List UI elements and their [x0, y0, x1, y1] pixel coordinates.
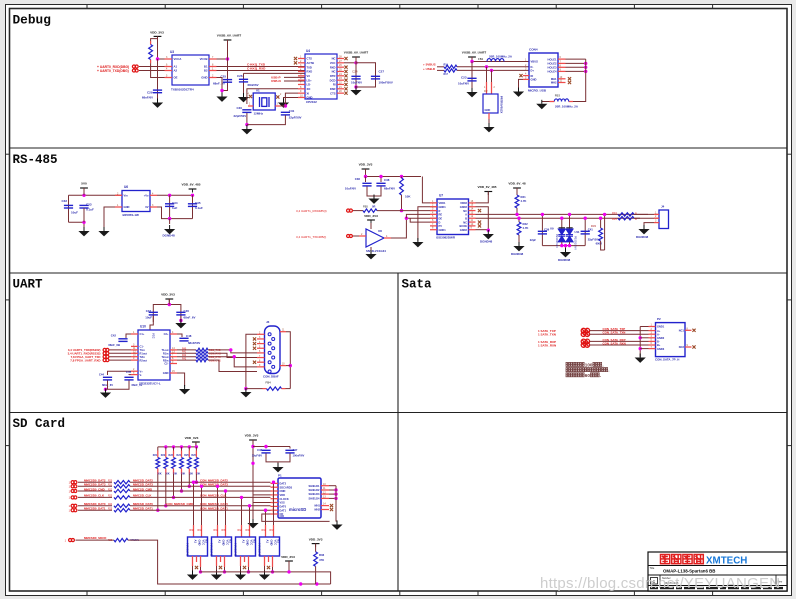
svg-text:VSS: VSS	[280, 501, 285, 505]
svg-text:B1: B1	[205, 540, 209, 544]
wire D2 gnd	[488, 119, 490, 124]
svg-text:R24: R24	[177, 454, 182, 457]
no-connect	[344, 83, 347, 86]
svg-text:100nF/50V: 100nF/50V	[379, 81, 393, 85]
svg-text:68nF/6V: 68nF/6V	[142, 96, 153, 100]
svg-text:J4: J4	[661, 205, 665, 209]
wire U4 GND pin	[284, 98, 299, 101]
svg-text:.: .	[602, 362, 603, 367]
svg-text:PESD1CAN: PESD1CAN	[555, 234, 558, 248]
no-connect	[253, 342, 256, 345]
svg-text:.: .	[608, 368, 609, 373]
wire shield	[329, 485, 336, 487]
svg-text:DGND48: DGND48	[511, 252, 524, 256]
wire power rail down to C29	[157, 59, 159, 100]
svg-text:HOLE4: HOLE4	[548, 70, 557, 74]
wire CON_SATA_TXN	[590, 333, 649, 335]
wire FB5 to U7	[377, 210, 437, 212]
capacitor C48 body	[179, 338, 188, 341]
wire loop C27	[356, 63, 376, 87]
svg-text:CMD: CMD	[280, 489, 286, 493]
junction	[284, 104, 287, 107]
svg-text:HOLE2: HOLE2	[548, 62, 557, 66]
wire to FB row1	[437, 66, 444, 68]
port UART1_RX485	[347, 209, 353, 212]
ground	[247, 519, 258, 528]
wire out	[177, 349, 196, 351]
svg-text:5V0: 5V0	[81, 182, 87, 186]
wire C32 down	[68, 195, 70, 222]
svg-text:R33: R33	[262, 530, 267, 532]
svg-text:.: .	[600, 373, 601, 378]
op-amp U8 SN74LVC1G34	[366, 229, 384, 247]
capacitor C46 body	[261, 450, 270, 453]
wire pullup rail	[158, 446, 196, 448]
svg-text:GND: GND	[221, 540, 225, 546]
svg-text:FB5: FB5	[363, 205, 368, 209]
svg-text:GND: GND	[163, 371, 169, 375]
ground	[278, 99, 289, 108]
svg-text:ID: ID	[531, 74, 534, 78]
power VDD_3V3	[154, 36, 162, 40]
svg-text:CLOCK: CLOCK	[280, 497, 289, 501]
svg-text:J3: J3	[266, 320, 270, 324]
svg-text:RS-485: RS-485	[13, 153, 58, 167]
svg-text:68nF_6V: 68nF_6V	[132, 383, 143, 387]
wire sdcd 2	[128, 540, 331, 584]
wire A drop1	[541, 214, 543, 245]
wire c48 link	[177, 334, 182, 337]
no-connect	[692, 329, 695, 332]
power VDD_3V3 R36	[312, 544, 320, 548]
svg-text:74AVC1T45: 74AVC1T45	[233, 543, 236, 557]
svg-text:RXD: RXD	[330, 65, 336, 69]
svg-text:B2: B2	[204, 69, 208, 73]
wire RX to FB	[353, 210, 363, 212]
note line1	[566, 362, 570, 366]
wire C35 branch	[192, 195, 194, 218]
svg-text:GND1: GND1	[439, 228, 447, 232]
svg-text:FB2: FB2	[478, 57, 484, 61]
power VDD_3V3 pullups	[192, 442, 200, 446]
capacitor C41	[581, 231, 590, 234]
capacitor C29	[153, 90, 162, 93]
svg-text:VUSB_6V_UART: VUSB_6V_UART	[462, 51, 487, 55]
wire R32 gnd	[518, 235, 520, 243]
no-connect	[219, 566, 222, 569]
svg-text:SDCARD3: SDCARD3	[280, 485, 293, 489]
svg-text:DAT2: DAT2	[280, 482, 287, 486]
no-connect	[344, 70, 347, 73]
port	[103, 348, 109, 351]
svg-text:+ 5VBUS: + 5VBUS	[423, 63, 436, 67]
power VDD_3V3 P1	[249, 440, 257, 444]
ground	[483, 123, 494, 132]
svg-text:MH2: MH2	[551, 81, 557, 85]
resistor R30	[400, 178, 404, 195]
wire FB out row1	[457, 66, 529, 68]
svg-text:R21: R21	[108, 485, 113, 487]
wire Vo rail	[157, 194, 193, 196]
wire c43 to vcc pin	[150, 316, 153, 331]
wire resistor to OE	[151, 63, 165, 77]
junction	[289, 364, 292, 367]
svg-text:CON_MMCSD_CMD: CON_MMCSD_CMD	[166, 502, 193, 506]
svg-text:R25: R25	[184, 454, 189, 457]
svg-text:B1: B1	[253, 540, 257, 544]
section divider line UART/SD Card	[10, 412, 788, 414]
date row	[650, 587, 658, 589]
resistor R24 pull-up	[180, 445, 183, 448]
svg-text:GND: GND	[531, 78, 537, 82]
svg-text:R1out: R1out	[140, 352, 147, 356]
connector J4	[659, 210, 669, 229]
svg-text:C1+: C1+	[140, 332, 145, 336]
wire shell left	[246, 334, 257, 388]
wire A net	[476, 213, 649, 215]
wire bus row	[130, 490, 271, 492]
wire V- branch	[129, 374, 131, 376]
ground	[98, 227, 109, 236]
wire vdd down	[252, 440, 254, 520]
svg-text:VDD_6V_485: VDD_6V_485	[478, 185, 497, 189]
no-connect	[568, 77, 571, 80]
resistor body	[180, 458, 184, 469]
IC U12 level shifter	[193, 525, 195, 537]
port	[103, 355, 109, 358]
svg-text:U10: U10	[140, 325, 146, 329]
wire V+ branch	[108, 371, 132, 375]
wire C26 rail	[244, 72, 306, 74]
svg-text:VCC: VCC	[225, 540, 229, 546]
wire C26 down	[243, 73, 245, 95]
junction	[515, 213, 518, 216]
capacitor C23	[467, 78, 476, 81]
sata gnd row links	[640, 326, 648, 328]
resistor R4x	[196, 352, 208, 355]
wire vss link	[253, 502, 271, 504]
wire C34 branch	[169, 195, 171, 218]
svg-text:PRTR5V0U2X: PRTR5V0U2X	[500, 96, 504, 114]
svg-text:R43: R43	[182, 359, 187, 361]
svg-text:0V: 0V	[145, 205, 148, 209]
power VDD_6V_48	[513, 188, 521, 192]
ground	[635, 354, 646, 363]
svg-text:B+: B+	[657, 343, 661, 347]
title block logo row line	[648, 565, 787, 567]
svg-text:Vin: Vin	[124, 194, 128, 198]
svg-text:68nF_6B: 68nF_6B	[108, 343, 120, 347]
wire USB-P row	[284, 76, 305, 78]
svg-text:VCC: VCC	[152, 333, 156, 339]
wire fb4 left	[246, 388, 263, 390]
svg-text:ACTB: ACTB	[307, 61, 315, 65]
svg-text:SD Card: SD Card	[13, 417, 66, 431]
svg-text:C44: C44	[99, 373, 105, 377]
wire power stem	[83, 188, 85, 195]
no-connect	[568, 81, 571, 84]
svg-text:GND1: GND1	[439, 205, 447, 209]
wire C44 gnd	[107, 381, 109, 390]
junction	[251, 445, 254, 448]
svg-text:U8: U8	[378, 229, 382, 233]
wire CON_SATA_RXP	[590, 340, 649, 342]
svg-text:R2in: R2in	[163, 358, 169, 362]
port SATA_TXN	[581, 332, 589, 337]
junction	[541, 213, 544, 216]
svg-text:C33: C33	[86, 203, 92, 207]
wire C30 down	[246, 113, 248, 125]
svg-text:PV: PV	[439, 224, 443, 228]
svg-text:4.7K: 4.7K	[521, 199, 527, 203]
ferrite resistor R21	[444, 69, 457, 72]
wire ls vcc rail	[200, 567, 202, 572]
resistor body	[114, 509, 130, 512]
resistor R33	[599, 228, 603, 241]
svg-text:MICRO_USB: MICRO_USB	[528, 89, 547, 93]
wire B2 to U4 RXD	[217, 70, 306, 72]
wire HOLE to shield rail	[566, 66, 586, 68]
wire R31 stem	[516, 188, 518, 195]
svg-text:R32: R32	[238, 530, 243, 532]
wire ls vcc rail	[248, 567, 250, 572]
capacitor C24	[351, 76, 360, 79]
svg-text:ISO3082DWR: ISO3082DWR	[436, 236, 456, 240]
wire power to VBUS	[472, 57, 529, 62]
svg-text:R17: R17	[444, 73, 449, 76]
wire U6 gnd	[104, 207, 115, 228]
svg-text:C35: C35	[195, 201, 201, 205]
SD connector P1	[278, 478, 321, 518]
svg-text:3,4 UART1_TXD485(I): 3,4 UART1_TXD485(I)	[296, 235, 326, 239]
svg-text:OE: OE	[174, 76, 178, 80]
svg-text:+ UART0_TXD(DBG): + UART0_TXD(DBG)	[97, 69, 129, 73]
resistor body	[195, 458, 199, 469]
capacitor C38	[376, 183, 385, 186]
wire c46 gnd	[180, 316, 182, 321]
IC U10 SP3232	[138, 330, 170, 380]
svg-text:GND3: GND3	[657, 347, 665, 351]
wire opamp gnd	[370, 247, 372, 251]
wire resistor top	[151, 39, 158, 41]
border zone ticks top/bottom	[86, 5, 88, 9]
section divider line RS-485/UART	[10, 272, 788, 274]
wire HOLE to shield rail	[566, 62, 586, 64]
wire B net	[476, 217, 641, 219]
svg-text:10uF/6V: 10uF/6V	[345, 187, 356, 191]
svg-text:A: A	[465, 213, 467, 217]
IC U15 level shifter	[265, 525, 267, 537]
svg-text:C46: C46	[184, 309, 190, 313]
capacitor C45	[124, 377, 133, 380]
resistor body	[164, 458, 168, 469]
svg-text:Debug: Debug	[13, 13, 51, 28]
svg-text:CON_SATA_7P_H: CON_SATA_7P_H	[655, 358, 679, 362]
junction	[560, 217, 563, 220]
svg-text:R1in: R1in	[163, 352, 169, 356]
svg-text:B0505S-1W: B0505S-1W	[123, 213, 140, 217]
junction	[470, 60, 473, 63]
wire tvs2 gnd	[569, 242, 571, 246]
resistor R34	[618, 213, 634, 216]
wire ls gnd	[264, 566, 266, 571]
svg-text:GND2: GND2	[460, 228, 468, 232]
port	[71, 481, 77, 484]
wire shell right	[286, 332, 290, 389]
junction	[251, 462, 254, 465]
wire caps gnd	[367, 187, 381, 197]
svg-text:FB4: FB4	[266, 381, 272, 385]
svg-text:VDD_3V3: VDD_3V3	[364, 214, 378, 218]
svg-text:CON_MMCSD_DAT1: CON_MMCSD_DAT1	[200, 507, 228, 511]
wire D+ to D2	[491, 70, 493, 82]
wire R31 to A	[516, 208, 518, 214]
svg-text:A1: A1	[217, 540, 221, 544]
wire bus row	[130, 481, 271, 483]
svg-text:CP2102: CP2102	[306, 100, 317, 104]
wire XI net	[285, 93, 298, 106]
junction	[82, 221, 85, 224]
ferrite FB4 body	[267, 387, 282, 390]
resistor body	[114, 485, 130, 488]
svg-text:LD+: LD+	[307, 78, 313, 82]
no-connect	[344, 87, 347, 90]
svg-text:C1-: C1-	[140, 345, 144, 349]
capacitor C42 body	[118, 339, 127, 342]
note line2	[566, 368, 570, 372]
wire FB out row2	[457, 69, 529, 71]
svg-text:VDD_3V3: VDD_3V3	[281, 555, 295, 559]
wire to resistor	[78, 509, 112, 511]
junction	[191, 194, 194, 197]
resistor R22 pull-up	[164, 445, 167, 448]
wire A term drop	[604, 214, 606, 250]
svg-text:XI: XI	[307, 91, 310, 95]
IC U4 CP2102	[305, 54, 337, 99]
svg-text:1 SATA_RXN: 1 SATA_RXN	[538, 344, 556, 348]
note line3	[566, 373, 570, 377]
svg-text:10uF/6V: 10uF/6V	[351, 81, 362, 85]
capacitor C44	[103, 377, 112, 380]
junction	[354, 61, 357, 64]
svg-text:NC: NC	[332, 70, 336, 74]
svg-text:SHIELD4: SHIELD4	[309, 497, 321, 501]
size row	[648, 585, 787, 587]
svg-text:NC: NC	[463, 209, 467, 213]
svg-text:D2: D2	[484, 89, 488, 93]
svg-text:C32: C32	[61, 199, 67, 203]
wire pwr stem	[195, 442, 197, 447]
port SATA_TXP	[581, 328, 589, 333]
svg-text:C47: C47	[293, 448, 298, 452]
svg-text:C46: C46	[257, 448, 262, 452]
svg-text:C23: C23	[461, 76, 467, 80]
junction	[564, 244, 567, 247]
svg-text:DTR: DTR	[330, 74, 336, 78]
junction	[82, 194, 85, 197]
ground	[513, 88, 524, 97]
svg-text:XMTECH: XMTECH	[706, 556, 747, 567]
wire rail to gnd	[169, 219, 171, 224]
wire XO net	[247, 89, 298, 104]
svg-text:R26: R26	[191, 454, 196, 457]
IC U13 level shifter	[217, 525, 219, 537]
svg-text:GND: GND	[201, 76, 207, 80]
no-connect	[344, 92, 347, 95]
wire A1	[139, 66, 165, 68]
junction	[400, 209, 403, 212]
svg-text:R22: R22	[108, 489, 113, 491]
ground	[175, 319, 186, 328]
resistor body	[187, 458, 191, 469]
svg-text:+Vo: +Vo	[144, 194, 149, 198]
wire C45 to gnd rail	[106, 381, 130, 390]
svg-text:V1: V1	[256, 89, 260, 93]
wire U10 gnd	[177, 373, 185, 386]
svg-text:R31: R31	[214, 530, 219, 532]
junction	[220, 89, 223, 92]
junction	[599, 217, 602, 220]
resistor body	[172, 458, 176, 469]
svg-text:GND1: GND1	[657, 325, 665, 329]
svg-text:SHIELD1: SHIELD1	[309, 484, 321, 488]
wire bottom rail tvs	[542, 245, 585, 247]
no-connect	[195, 566, 198, 569]
svg-text:SHIELD2: SHIELD2	[309, 488, 321, 492]
svg-text:R2out: R2out	[140, 358, 147, 362]
svg-text:VDD: VDD	[280, 493, 286, 497]
wire VCC pin rail	[344, 62, 356, 64]
no-connect	[478, 209, 481, 212]
P1 shield pins	[321, 485, 329, 487]
svg-text:GND: GND	[485, 108, 491, 112]
IC U6 DCDC B0505S	[122, 191, 150, 212]
svg-text:CON_DB9F: CON_DB9F	[263, 375, 279, 379]
no-connect	[253, 347, 256, 350]
svg-text:A1: A1	[265, 540, 269, 544]
no-connect	[253, 361, 256, 364]
no-connect	[294, 61, 297, 64]
svg-text:V3: V3	[307, 74, 311, 78]
svg-text:MH2: MH2	[315, 508, 321, 512]
power VUSB_6V_UART	[468, 57, 476, 61]
junction	[168, 194, 171, 197]
wire R30 bottom	[401, 195, 403, 211]
svg-text:1 SATA_TXN: 1 SATA_TXN	[538, 333, 556, 337]
wire C41 drop	[584, 218, 586, 245]
svg-text:UART: UART	[13, 278, 44, 292]
wire ls vcc rail	[224, 567, 226, 572]
junction D-	[485, 65, 488, 68]
junction	[299, 582, 302, 585]
svg-text:R22: R22	[161, 454, 166, 457]
wire ls gnd	[192, 566, 194, 571]
svg-text:DGND48: DGND48	[636, 235, 649, 239]
capacitor C47 body	[285, 450, 294, 453]
wire ls gnd	[216, 566, 218, 571]
power VDD_3V3 opamp	[367, 220, 375, 224]
wire db9 7	[208, 357, 257, 367]
svg-text:R41: R41	[182, 352, 187, 354]
svg-text:10uF: 10uF	[145, 316, 152, 320]
svg-text:R16: R16	[444, 64, 449, 67]
wire R33 bottom link	[601, 241, 605, 250]
wire to resistor	[78, 481, 112, 483]
svg-text:74AVC1T45: 74AVC1T45	[257, 543, 260, 557]
resistor body	[114, 489, 130, 492]
resistor R35	[618, 217, 634, 220]
svg-text:T1out: T1out	[161, 348, 168, 352]
